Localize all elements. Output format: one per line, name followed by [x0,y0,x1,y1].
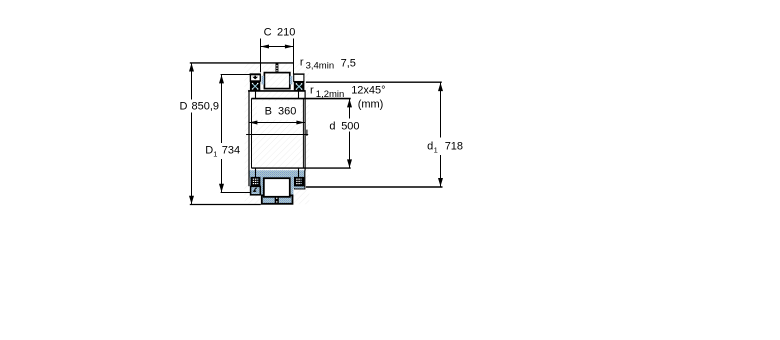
outer ring flange step right (top) [293,73,305,75]
D1 arrow up [219,75,224,83]
svg-text:3,4min: 3,4min [306,61,335,72]
roller bottom-left frame [251,177,261,187]
D1 arrow down [219,184,224,192]
flange tick left (top) [255,91,257,99]
d1 arrow up [438,83,443,91]
roller tick left (bottom) [255,168,257,178]
roller bottom-right dot grid [296,179,302,185]
outer diameter top surface line (D ref top) [190,62,293,64]
bottom boss (outer ring bottom, blue) [262,195,293,203]
light hatch zone around bearing section [245,63,310,204]
bearing right chamfer line [302,98,304,168]
right column narrow part (blue) [291,189,294,197]
inner ring bottom band (blue) [249,170,305,177]
B dimension arrow right [296,121,305,125]
d1 top reference line [306,81,442,83]
svg-text:12x45°: 12x45° [351,84,385,96]
roller top-right (frame) [294,82,304,91]
C dimension extension line left [260,39,262,73]
roller top-left X pattern [252,83,258,90]
svg-text:(mm): (mm) [358,99,384,111]
svg-text:500: 500 [341,120,359,132]
roller tick right (bottom) [298,168,300,178]
inner ring flange top line [248,90,305,92]
bore surface bottom line + d ref [251,167,350,169]
bearing left chamfer line [251,98,253,168]
bore surface top line + d ref [251,98,350,100]
roller top-left (frame) [250,82,259,91]
locating slot box left (top) [250,75,260,81]
cage spacer bottom (white block) [264,178,290,197]
locating slot box left (bottom, blue) [251,186,261,194]
C dimension arrow left [261,45,269,49]
svg-text:210: 210 [277,27,295,39]
svg-text:d: d [427,141,433,153]
arrow mark in bottom slot box [253,189,257,192]
d dimension line (vertical) [349,98,351,118]
svg-text:718: 718 [445,141,463,153]
flange tick right (top) [298,91,300,99]
svg-text:1: 1 [213,149,217,158]
outer ring split joint (top lubrication notch) [276,63,279,72]
blue guide bar right (top) [290,76,293,85]
D arrow up [189,63,194,71]
slot box right (top) [294,74,304,81]
C dimension arrow right [285,45,294,49]
left column (blue) [250,177,264,195]
left column outer edge [248,170,250,186]
axis centerline [246,134,308,136]
svg-text:r: r [300,57,304,69]
D1 bottom reference line [221,192,251,194]
C dimension line [261,46,294,48]
right column (blue) [291,177,305,188]
outer ring flange step left (top) [250,73,261,75]
bearing left side face [248,90,250,170]
roller top-right X pattern [296,83,303,90]
blue guide bar left (top) [262,76,265,85]
svg-text:850,9: 850,9 [192,101,220,113]
D arrow down [189,196,194,204]
d arrow down [347,159,352,167]
D1 dimension line [221,75,223,143]
svg-text:1: 1 [434,146,438,155]
D1 top reference line [221,74,251,76]
white label box for B dimension [257,101,301,120]
svg-text:C: C [264,27,272,39]
svg-text:7,5: 7,5 [341,57,356,69]
d1 arrow down [438,178,443,186]
svg-text:1,2min: 1,2min [316,89,345,100]
D dimension line (left) [191,63,193,100]
roller bottom-right frame [294,177,304,187]
svg-text:734: 734 [222,145,240,157]
thin blue strip under right roller [295,187,305,189]
d1 dimension line (vertical) [440,82,442,137]
svg-text:r: r [310,84,314,96]
right column outer edge [304,170,306,188]
B dimension line [249,122,305,124]
roller bottom-left dot grid [253,179,259,185]
bearing right side face [304,90,306,170]
right column bottom edge [294,188,305,190]
svg-text:d: d [329,120,335,132]
split joint notch bottom [275,196,279,204]
D bottom reference line [190,204,261,206]
d arrow up [347,99,352,107]
B dimension arrow left [249,121,258,125]
centerline end tick [306,130,308,136]
svg-text:D: D [180,101,188,113]
svg-text:360: 360 [278,106,296,118]
cage spacer top (white block) [264,73,289,89]
arrow mark in slot box [252,77,258,80]
svg-text:B: B [265,106,272,118]
svg-text:D: D [205,145,213,157]
d1 bottom reference line [306,186,443,188]
C dimension extension line right [293,39,295,74]
